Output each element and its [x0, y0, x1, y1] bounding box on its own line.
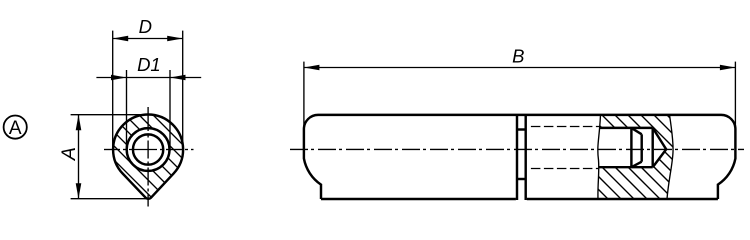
- dimension D1: [96, 70, 201, 151]
- dimension A: [71, 115, 149, 199]
- dimension D: [113, 31, 183, 151]
- svg-text:D1: D1: [137, 54, 161, 75]
- hatch: teardrop section lining: [0, 100, 295, 215]
- pin inner circle: [133, 134, 163, 164]
- svg-text:D: D: [139, 16, 152, 37]
- hinge body outline: [304, 115, 736, 199]
- bore circle D1: [127, 128, 170, 171]
- drill cone: [653, 128, 667, 167]
- hidden bore lines: [531, 127, 600, 169]
- tapped hole walls: [599, 128, 653, 167]
- hatch: broken-out section lining: [483, 100, 750, 210]
- svg-text:A: A: [58, 147, 80, 161]
- svg-text:A: A: [9, 118, 22, 139]
- hex socket profile: [631, 128, 641, 167]
- break line right: [667, 115, 673, 199]
- center lines of cross-section: [104, 107, 194, 207]
- teardrop outline: [113, 114, 183, 198]
- bottom edge right leaf: [527, 198, 718, 200]
- split joint between leaves: [517, 115, 526, 200]
- dimension B: [304, 62, 736, 152]
- bottom edge left leaf: [321, 198, 516, 200]
- pin axis center line: [290, 148, 744, 150]
- tapped hole cavity white-out: [598, 128, 666, 167]
- svg-text:B: B: [512, 46, 524, 67]
- break line left: [598, 115, 601, 199]
- view label: circled A: [4, 116, 27, 139]
